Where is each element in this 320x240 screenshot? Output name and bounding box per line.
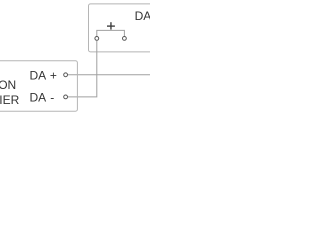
wire: DA+ terminal to right edge	[68, 74, 150, 76]
svg-text:+: +	[50, 68, 57, 82]
svg-text:ISOLATION: ISOLATION	[0, 78, 16, 92]
terminal circle (top device, right pin)	[123, 37, 127, 41]
svg-text:DA: DA	[30, 68, 47, 82]
polarity label + (jumper bracket)	[107, 22, 115, 29]
svg-text:DA: DA	[30, 91, 47, 105]
terminal circle DA+	[64, 73, 68, 77]
device box U1 (bottom left, cut off at left edge)	[0, 61, 77, 111]
wire: top-left terminal down and left to DA- terminal	[68, 41, 97, 97]
jumper bracket wire between top terminals	[97, 30, 125, 36]
terminal circle (top device, left pin)	[95, 37, 99, 41]
device box U2 (top right, cut off at right edge)	[89, 4, 161, 52]
terminal circle DA-	[64, 95, 68, 99]
svg-text:DA: DA	[135, 9, 150, 23]
svg-text:-: -	[50, 91, 54, 105]
svg-text:AMPLIFIER: AMPLIFIER	[0, 93, 20, 107]
